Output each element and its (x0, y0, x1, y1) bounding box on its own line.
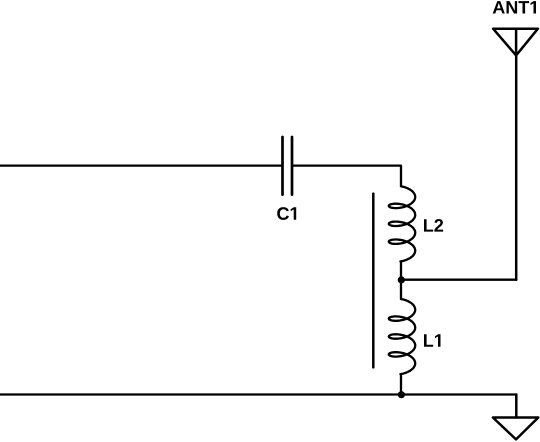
wire L1 bottom to node B (400, 374, 402, 394)
label L1 (424, 334, 441, 346)
wire L2 bottom to node A (400, 261, 402, 279)
wire node A to L1 top (400, 280, 402, 299)
wire top-left horizontal to C1 (0, 164, 281, 166)
wire antenna vertical (515, 55, 518, 279)
label ANT1 (493, 1, 536, 13)
node B junction dot (398, 391, 405, 398)
ground symbol (493, 418, 538, 440)
wire bottom horizontal (0, 393, 516, 395)
label C1 (277, 207, 296, 220)
antenna ANT1 symbol (493, 29, 538, 56)
inductor L2 (389, 186, 415, 261)
wire C1 to L2 top corner (293, 166, 401, 187)
wire to ground (515, 395, 518, 418)
node A junction dot (398, 276, 405, 283)
inductor L1 (389, 299, 415, 374)
capacitor C1 (283, 137, 293, 195)
inductor core line (372, 194, 375, 368)
wire node A to antenna vertical (401, 279, 516, 281)
label L2 (424, 219, 443, 232)
